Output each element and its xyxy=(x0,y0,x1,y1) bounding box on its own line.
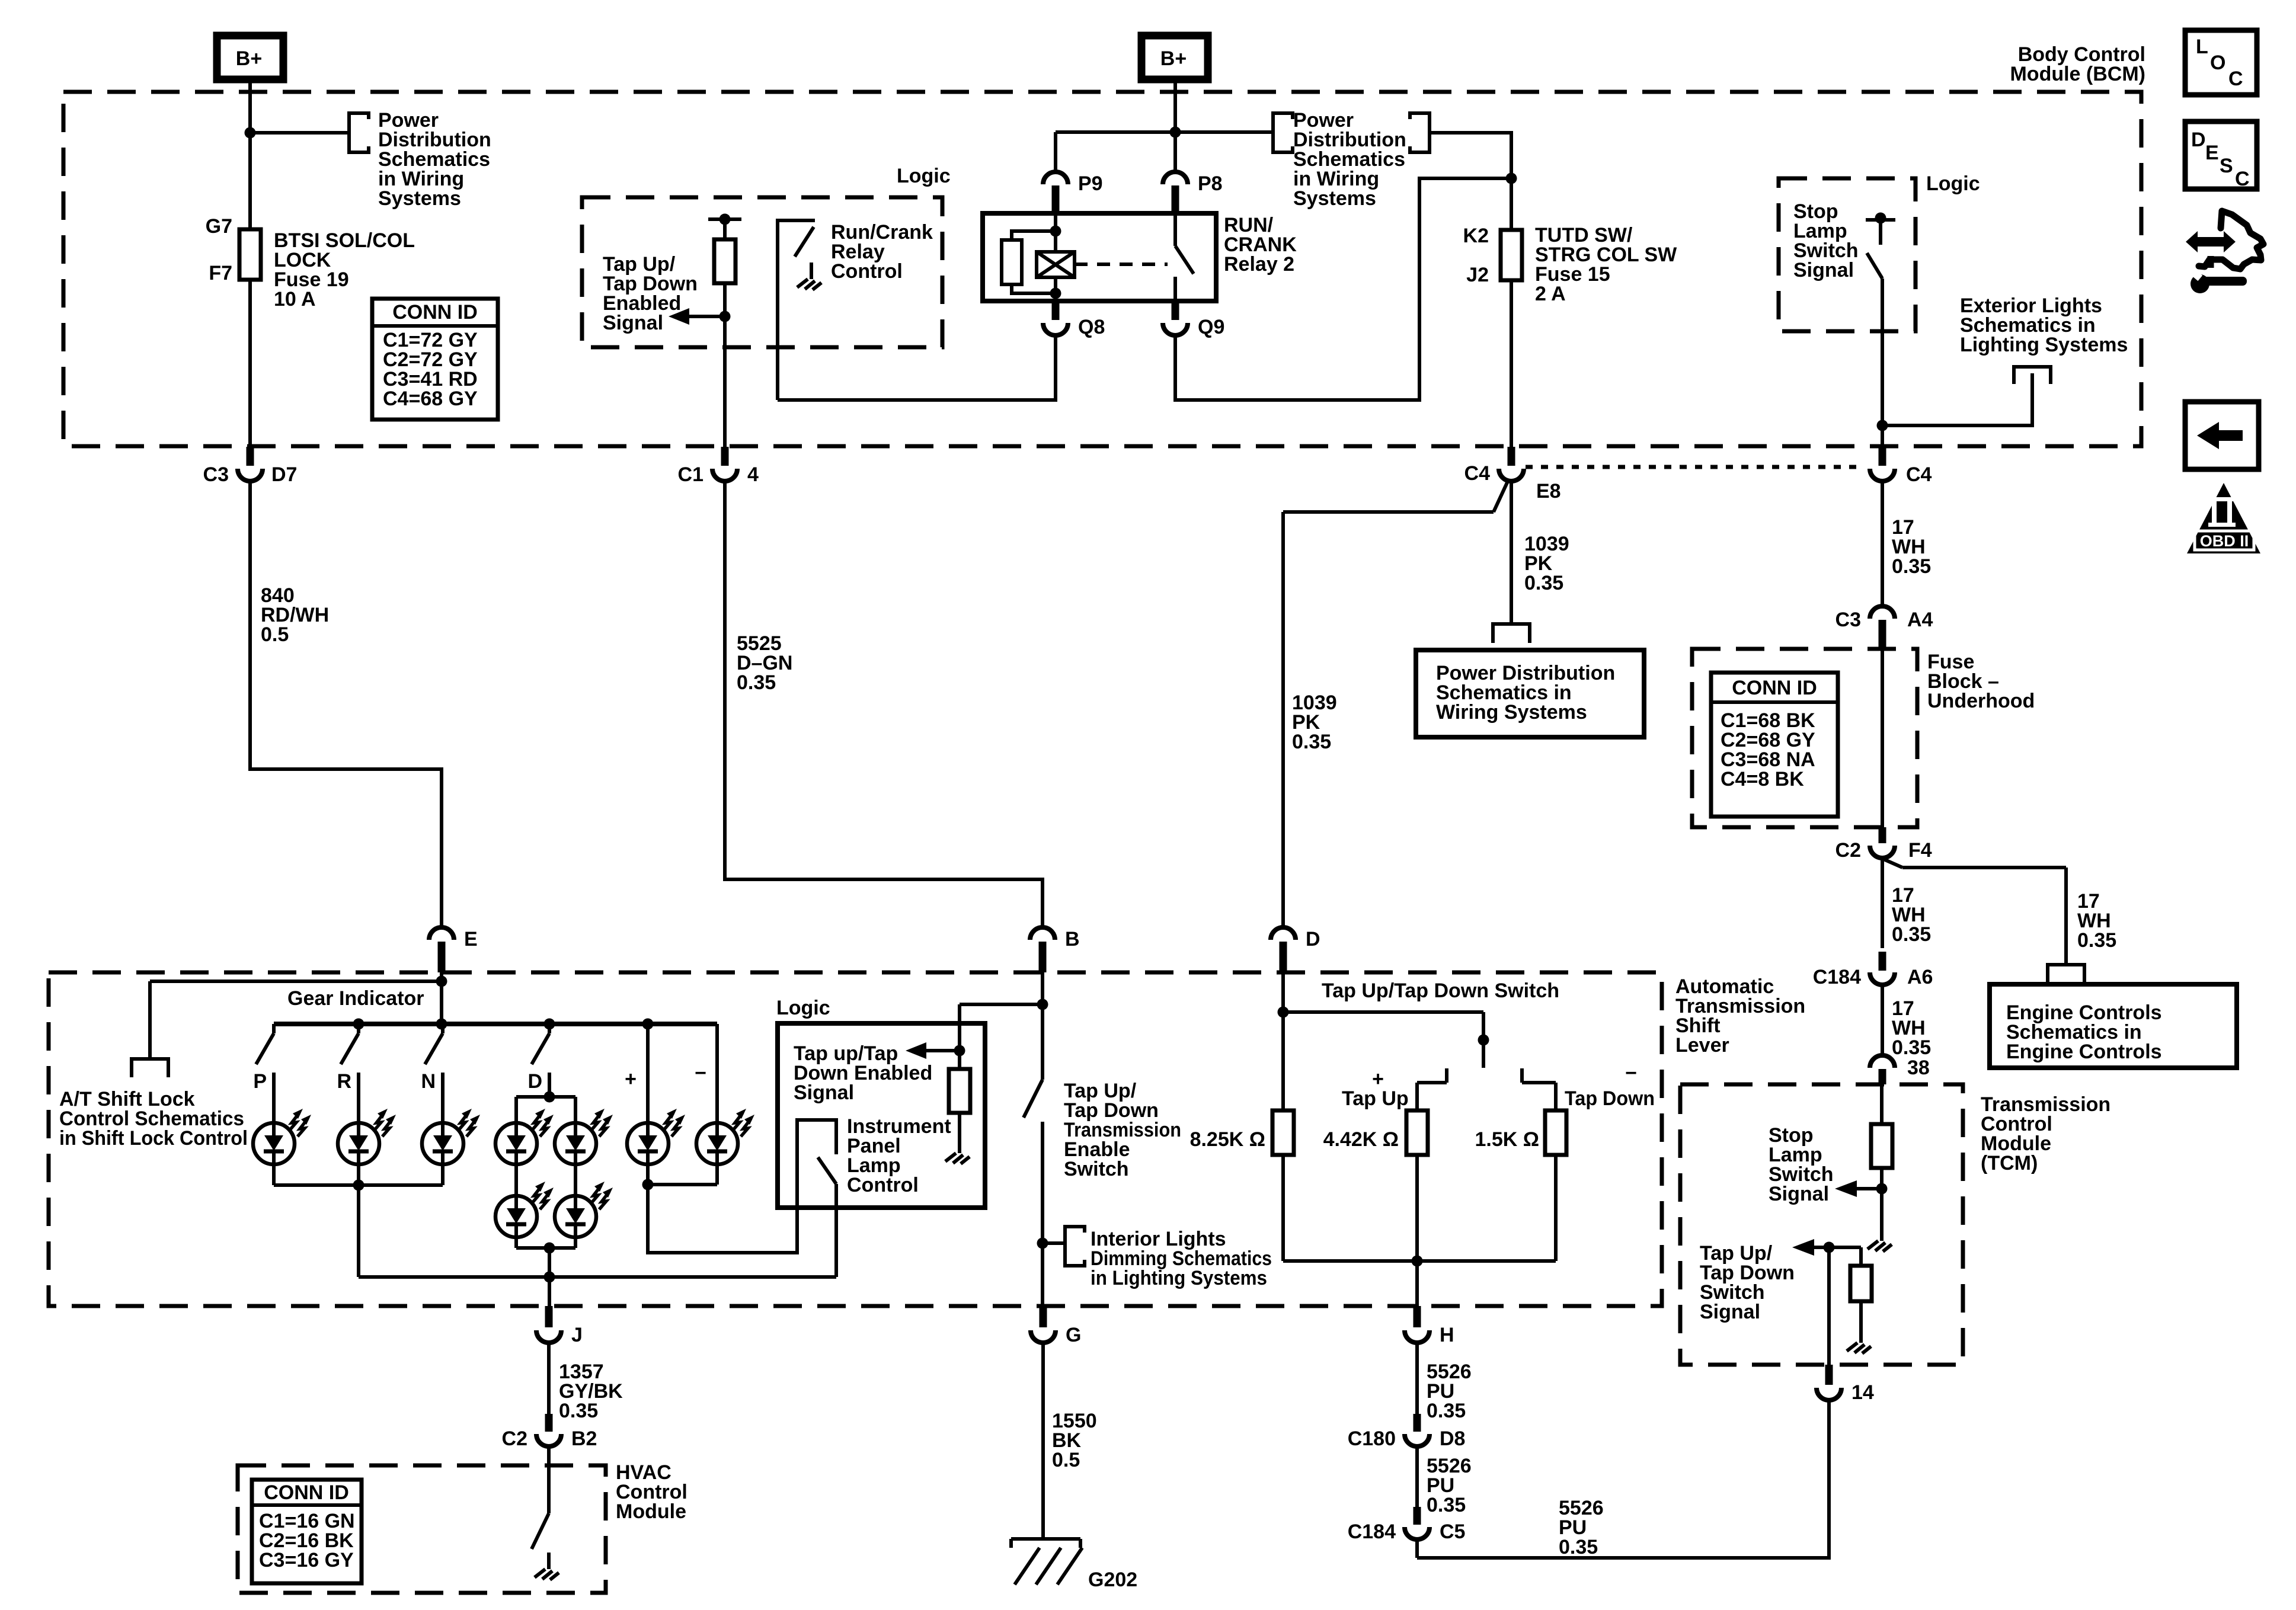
wire +/- to lamp switch xyxy=(648,1120,836,1253)
switch Run/Crank Relay Control xyxy=(778,220,815,400)
svg-text:0.5: 0.5 xyxy=(1052,1449,1080,1471)
ground (logic) xyxy=(945,1137,970,1164)
svg-text:Engine Controls: Engine Controls xyxy=(2006,1041,2162,1063)
connector C4 (right) xyxy=(1870,447,1932,486)
svg-text:Module: Module xyxy=(616,1500,686,1523)
svg-text:D8: D8 xyxy=(1440,1427,1465,1450)
svg-text:P: P xyxy=(253,1070,267,1093)
box Power Distribution Schematics in Wiring Systems xyxy=(1416,650,1644,737)
node stop lamp branch xyxy=(1877,420,1888,431)
svg-text:Wiring Systems: Wiring Systems xyxy=(1436,701,1587,724)
wire C4 to fuse block xyxy=(1881,483,1884,606)
node logic feed xyxy=(954,1045,965,1057)
relay resistor branch xyxy=(1002,231,1056,293)
wire D into switch xyxy=(1281,972,1285,1110)
LED P xyxy=(253,1073,311,1185)
svg-text:38: 38 xyxy=(1907,1057,1930,1079)
switch tap up/tap down transmission enable xyxy=(1024,972,1043,1306)
node H drop xyxy=(1412,1256,1423,1267)
icon OBD II xyxy=(2187,483,2260,553)
CONN ID table (BCM) xyxy=(372,299,498,420)
svg-text:C2: C2 xyxy=(1835,839,1861,862)
svg-text:in Lighting Systems: in Lighting Systems xyxy=(1091,1267,1267,1289)
wire D array down xyxy=(548,1248,551,1306)
LED - xyxy=(695,1024,754,1185)
svg-text:4.42K Ω: 4.42K Ω xyxy=(1323,1128,1399,1151)
svg-text:Underhood: Underhood xyxy=(1927,690,2035,712)
resistor 4.42K xyxy=(1323,1083,1428,1261)
svg-text:Lighting Systems: Lighting Systems xyxy=(1960,334,2128,356)
wire branch to engine controls xyxy=(1882,859,2066,965)
wire 1550 BK 0.5 xyxy=(1041,1343,1045,1539)
ground G202 xyxy=(1011,1539,1137,1591)
relay switch xyxy=(1175,213,1194,301)
wire +/- cathode bar xyxy=(648,1183,717,1186)
svg-text:E: E xyxy=(464,928,478,950)
svg-text:A6: A6 xyxy=(1907,966,1933,988)
wire branch right to power distribution bracket xyxy=(1175,130,1273,134)
node arrow junction xyxy=(720,311,731,322)
svg-text:0.35: 0.35 xyxy=(2077,929,2116,952)
svg-text:L: L xyxy=(2196,36,2208,58)
svg-text:0.35: 0.35 xyxy=(1892,923,1931,946)
svg-text:Signal: Signal xyxy=(794,1081,854,1104)
svg-text:O: O xyxy=(2210,52,2225,74)
svg-text:N: N xyxy=(421,1070,436,1093)
ground (run/crank relay control) xyxy=(797,263,821,290)
switch P xyxy=(253,1024,274,1093)
wire Q9 to fuse K2 node xyxy=(1175,178,1511,400)
svg-text:Tap Down: Tap Down xyxy=(1565,1087,1655,1110)
LED N xyxy=(422,1073,480,1185)
instrument cluster / shift lever dashed box xyxy=(49,972,1662,1306)
bracket power distribution box xyxy=(1493,624,1530,643)
resistor tap signal pulldown xyxy=(1829,1247,1872,1326)
node rocker pivot xyxy=(1478,1035,1489,1046)
svg-text:0.35: 0.35 xyxy=(559,1400,598,1422)
svg-text:Tap Up: Tap Up xyxy=(1342,1087,1409,1110)
svg-text:Lever: Lever xyxy=(1675,1034,1729,1057)
svg-text:C3: C3 xyxy=(1835,609,1861,631)
svg-text:0.35: 0.35 xyxy=(1427,1494,1466,1516)
svg-text:8.25K Ω: 8.25K Ω xyxy=(1190,1128,1265,1151)
wire R drop to low bus xyxy=(357,1185,360,1277)
wire logic feed from B xyxy=(960,1004,1043,1051)
Body Control Module (BCM) dashed box xyxy=(63,92,2141,446)
connector C1/4 xyxy=(678,447,759,486)
svg-text:J2: J2 xyxy=(1466,264,1489,286)
svg-text:Signal: Signal xyxy=(1700,1301,1760,1323)
svg-text:C184: C184 xyxy=(1348,1521,1396,1543)
wire rocker output bus xyxy=(1283,1259,1556,1263)
fuse TUTD SW/STRG COL SW Fuse 15 2A xyxy=(1501,230,1522,280)
svg-text:1.5K Ω: 1.5K Ω xyxy=(1475,1128,1539,1151)
bracket engine controls xyxy=(2048,965,2084,982)
svg-text:E8: E8 xyxy=(1536,480,1561,502)
relay coil xyxy=(1037,231,1075,301)
wire to rocker common xyxy=(1283,1012,1483,1068)
CONN ID table (HVAC) xyxy=(252,1480,362,1583)
svg-text:P8: P8 xyxy=(1198,172,1223,195)
svg-text:Tap Up/Tap Down Switch: Tap Up/Tap Down Switch xyxy=(1322,980,1559,1002)
bracket A/T shift lock xyxy=(132,1059,168,1077)
node B+2 branch xyxy=(1170,127,1181,138)
svg-text:Signal: Signal xyxy=(1769,1183,1829,1205)
svg-text:C4=8 BK: C4=8 BK xyxy=(1721,768,1804,790)
wire E8 diagonal branch xyxy=(1283,479,1509,926)
B+ terminal 1 xyxy=(217,36,283,79)
svg-text:+: + xyxy=(625,1068,637,1090)
box Engine Controls Schematics in Engine Controls xyxy=(1990,984,2237,1068)
svg-text:0.5: 0.5 xyxy=(261,623,289,646)
connector J xyxy=(536,1306,583,1346)
node K2 feed junction xyxy=(1506,173,1517,184)
svg-text:Signal: Signal xyxy=(603,312,663,334)
svg-text:C3=16 GY: C3=16 GY xyxy=(259,1549,354,1571)
svg-text:Relay 2: Relay 2 xyxy=(1224,253,1294,276)
wire D8 to C184 xyxy=(1415,1448,1419,1507)
connector C184/A6 xyxy=(1813,952,1933,988)
svg-text:C2: C2 xyxy=(502,1427,527,1450)
svg-text:Q8: Q8 xyxy=(1078,316,1105,338)
wire bracket to fuse K2 xyxy=(1430,133,1511,230)
arrow tap up/tap down switch signal xyxy=(1792,1239,1829,1256)
svg-text:0.35: 0.35 xyxy=(1892,1036,1931,1059)
ground (HVAC) xyxy=(535,1553,559,1580)
wire E into cluster xyxy=(440,972,443,1024)
svg-text:Logic: Logic xyxy=(1926,172,1980,195)
node tap signal junction xyxy=(1824,1242,1835,1253)
wire 8.25K down xyxy=(1281,1155,1285,1261)
resistor 1.5K xyxy=(1475,1083,1566,1261)
B+ terminal 2 xyxy=(1141,36,1208,79)
svg-text:C4: C4 xyxy=(1464,462,1491,485)
svg-text:A4: A4 xyxy=(1907,609,1933,631)
connector C2/F4 xyxy=(1835,827,1932,862)
wire D switch to LED array xyxy=(548,1073,551,1097)
icon LOC xyxy=(2185,30,2257,95)
svg-text:C180: C180 xyxy=(1348,1427,1396,1450)
svg-text:C184: C184 xyxy=(1813,966,1861,988)
Logic box (Tap Up/Tap Down Enabled Signal) xyxy=(582,197,942,347)
svg-text:F4: F4 xyxy=(1908,839,1932,862)
ground (TCM tap signal) xyxy=(1847,1326,1871,1353)
relay RUN/CRANK Relay 2 box xyxy=(983,213,1216,301)
relay coil-switch dashed link xyxy=(1075,263,1168,266)
svg-text:in Shift Lock Control: in Shift Lock Control xyxy=(59,1127,248,1150)
wire low bus xyxy=(359,1275,836,1279)
connector D xyxy=(1271,927,1320,972)
connector 14 xyxy=(1817,1365,1874,1404)
bracket power distribution left xyxy=(1273,113,1293,152)
icon DESC xyxy=(2185,121,2257,190)
connector C4/E8 xyxy=(1464,447,1561,502)
connector Q9 xyxy=(1163,301,1224,338)
svg-text:0.35: 0.35 xyxy=(1892,555,1931,578)
connector C184/C5 xyxy=(1348,1507,1466,1543)
bracket interior lights xyxy=(1065,1227,1085,1266)
connector B xyxy=(1030,927,1080,972)
wire B+2 down to relay P8 xyxy=(1173,79,1177,170)
wire resistor to connector C1 xyxy=(723,283,727,447)
svg-text:C4=68 GY: C4=68 GY xyxy=(383,388,478,410)
wire to A/T shift lock bracket xyxy=(150,981,442,1059)
svg-text:D7: D7 xyxy=(271,463,297,486)
svg-text:G7: G7 xyxy=(206,215,232,238)
resistor stop lamp (TCM) xyxy=(1871,1084,1892,1224)
wire E8 down branch xyxy=(1510,482,1513,624)
svg-text:C: C xyxy=(2235,168,2250,190)
connector C3/D7 xyxy=(203,447,298,486)
svg-text:F7: F7 xyxy=(209,262,232,284)
wire Q8 to run/crank control xyxy=(778,336,1056,400)
node stop lamp signal xyxy=(1876,1183,1888,1195)
svg-text:4: 4 xyxy=(747,463,759,486)
svg-text:C: C xyxy=(2228,68,2243,90)
wire B+1 to fuse G7 xyxy=(248,79,252,229)
relay coil node top xyxy=(1054,213,1057,231)
connector H xyxy=(1405,1306,1454,1346)
svg-text:B+: B+ xyxy=(236,47,262,70)
bracket power distribution right xyxy=(1410,113,1430,152)
wire to power distribution bracket xyxy=(250,131,349,135)
svg-text:C1: C1 xyxy=(678,463,703,486)
switch D xyxy=(527,1024,549,1093)
arrow stop lamp switch signal xyxy=(1835,1180,1882,1197)
wire 840 RD/WH 0.5 xyxy=(250,482,442,926)
svg-text:B2: B2 xyxy=(571,1427,597,1450)
node +/- drop xyxy=(642,1179,654,1190)
wire fuse J2 to connector C4 xyxy=(1510,280,1513,447)
wire to exterior lights bracket xyxy=(1882,373,2032,425)
switch tap up/tap down rocker contacts xyxy=(1417,1068,1556,1083)
connector C2/B2 xyxy=(502,1414,597,1450)
HVAC Control Module dashed box xyxy=(238,1465,606,1593)
svg-text:P9: P9 xyxy=(1078,172,1103,195)
connector Q8 xyxy=(1043,301,1105,338)
LED R xyxy=(338,1073,396,1185)
svg-text:K2: K2 xyxy=(1463,225,1489,247)
svg-text:0.35: 0.35 xyxy=(1524,572,1563,594)
svg-text:2 A: 2 A xyxy=(1535,283,1566,305)
fuse BTSI SOL/COL LOCK Fuse 19 10A xyxy=(239,229,261,280)
svg-text:Signal: Signal xyxy=(1793,259,1854,281)
svg-text:D: D xyxy=(527,1070,542,1093)
arrow tap up/tap down enabled signal xyxy=(906,1042,960,1059)
node R drop xyxy=(353,1180,364,1191)
svg-text:CONN ID: CONN ID xyxy=(1732,677,1817,699)
svg-text:CONN ID: CONN ID xyxy=(392,301,478,324)
Logic box (Stop Lamp Switch Signal, BCM) xyxy=(1779,178,1916,331)
ground (TCM stop lamp) xyxy=(1868,1224,1892,1251)
svg-text:B: B xyxy=(1065,928,1080,950)
node tap enable branch xyxy=(1037,999,1048,1010)
svg-text:C5: C5 xyxy=(1440,1521,1465,1543)
wire through fuse block xyxy=(1881,649,1884,827)
node rocker feed xyxy=(1278,1007,1289,1018)
wire A6 to 38 xyxy=(1881,987,1884,1055)
svg-text:0.35: 0.35 xyxy=(1292,731,1331,753)
svg-text:0.35: 0.35 xyxy=(1559,1536,1598,1558)
svg-text:Q9: Q9 xyxy=(1198,316,1224,338)
wire C5 to TCM pin 14 xyxy=(1415,1541,1419,1558)
node E branch xyxy=(436,976,447,987)
svg-text:(TCM): (TCM) xyxy=(1981,1152,2038,1174)
switch R xyxy=(337,1024,359,1093)
arrow Tap Up/Tap Down Enabled Signal xyxy=(669,308,725,325)
svg-text:G: G xyxy=(1066,1324,1081,1346)
switch stop lamp (BCM logic) xyxy=(1866,213,1895,447)
svg-text:D: D xyxy=(2191,129,2206,151)
svg-text:B+: B+ xyxy=(1160,47,1187,70)
TCM dashed box xyxy=(1680,1084,1963,1365)
svg-text:Gear Indicator: Gear Indicator xyxy=(287,987,424,1010)
svg-text:R: R xyxy=(337,1070,351,1093)
switch instrument panel lamp control (HVAC) xyxy=(532,1448,549,1549)
Fuse Block - Underhood dashed box xyxy=(1692,649,1917,827)
connector P8 xyxy=(1163,172,1223,213)
svg-text:Control: Control xyxy=(847,1174,919,1196)
LED + xyxy=(625,1024,685,1185)
wire to interior lights bracket xyxy=(1043,1241,1065,1245)
svg-text:CONN ID: CONN ID xyxy=(264,1481,349,1504)
wire 5525 D-GN 0.35 xyxy=(725,482,1043,926)
CONN ID table (fuse block) xyxy=(1711,673,1838,817)
wire branch to P9 xyxy=(1056,132,1175,170)
node interior lights branch xyxy=(1037,1238,1048,1249)
node bus junctions xyxy=(353,1019,364,1030)
svg-text:Systems: Systems xyxy=(378,187,461,210)
svg-text:Logic: Logic xyxy=(897,165,951,187)
svg-text:Switch: Switch xyxy=(1064,1158,1129,1180)
resistor pull-up (logic) xyxy=(708,214,741,284)
bracket: Power Distribution reference xyxy=(349,113,369,152)
connector E xyxy=(429,927,478,972)
svg-text:Logic: Logic xyxy=(776,997,830,1019)
wire fuse F7 to connector C3 xyxy=(248,280,252,447)
svg-text:−: − xyxy=(1625,1062,1637,1084)
wire P/R/N cathode bus xyxy=(274,1183,443,1187)
svg-text:C4: C4 xyxy=(1906,463,1932,486)
wire tap signal to pin 14 xyxy=(1827,1247,1831,1365)
svg-text:0.35: 0.35 xyxy=(737,671,776,694)
connector C180/D8 xyxy=(1348,1414,1466,1450)
connector G xyxy=(1031,1306,1081,1346)
wire gear indicator bus xyxy=(274,1022,717,1026)
wire to H xyxy=(1415,1261,1419,1306)
svg-text:S: S xyxy=(2220,155,2233,177)
svg-text:10 A: 10 A xyxy=(274,288,316,311)
switch instrument panel lamp control xyxy=(818,1120,836,1277)
resistor 8.25K xyxy=(1190,1110,1294,1155)
connector 38 xyxy=(1870,1055,1930,1084)
connector C3/A4 xyxy=(1835,606,1933,649)
svg-text:Control: Control xyxy=(831,260,903,283)
wire C2/F4 down xyxy=(1881,859,1884,948)
dotted connector link C4-C4 xyxy=(1526,465,1861,469)
node low bus junction xyxy=(544,1272,555,1283)
icon back arrow xyxy=(2185,402,2259,469)
switch N xyxy=(421,1024,443,1093)
node junction at B+1 branch xyxy=(245,127,256,139)
resistor logic pulldown xyxy=(949,1051,970,1137)
bracket exterior lights xyxy=(2014,367,2051,384)
wire 5526 PU 0.35 (TCM to C184) xyxy=(1417,1401,1829,1558)
svg-text:C3: C3 xyxy=(203,463,229,486)
svg-text:14: 14 xyxy=(1851,1381,1874,1404)
wire H to C180 xyxy=(1415,1343,1419,1414)
LED array D (4 LEDs) xyxy=(495,1092,613,1254)
svg-text:OBD II: OBD II xyxy=(2200,532,2249,550)
svg-text:E: E xyxy=(2205,142,2219,164)
svg-text:−: − xyxy=(695,1062,706,1084)
svg-text:D: D xyxy=(1306,928,1320,950)
icon vehicle data / wrench xyxy=(2186,211,2263,293)
svg-text:Module (BCM): Module (BCM) xyxy=(2010,63,2145,85)
connector P9 xyxy=(1043,172,1103,213)
Logic box (instrument panel lamp control) xyxy=(778,1023,985,1208)
svg-text:G202: G202 xyxy=(1088,1569,1137,1591)
svg-text:J: J xyxy=(571,1324,583,1346)
svg-text:0.35: 0.35 xyxy=(1427,1400,1466,1422)
wire 1357 GY/BK 0.35 xyxy=(547,1343,551,1414)
svg-text:Systems: Systems xyxy=(1293,187,1376,210)
svg-text:H: H xyxy=(1440,1324,1454,1346)
